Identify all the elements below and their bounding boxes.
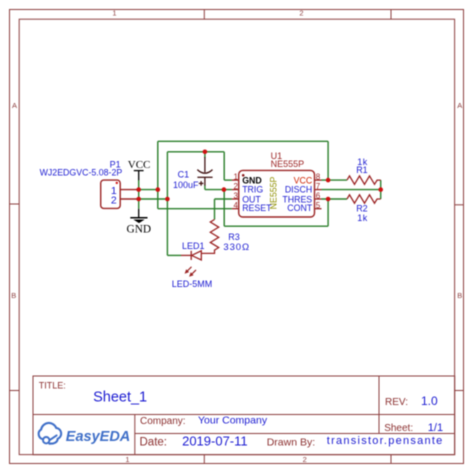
- svg-text:1k: 1k: [357, 213, 368, 223]
- svg-text:5: 5: [316, 201, 321, 210]
- svg-text:Drawn By:: Drawn By:: [267, 436, 315, 448]
- svg-text:Company:: Company:: [140, 416, 186, 427]
- svg-text:2: 2: [299, 8, 303, 17]
- svg-text:GND: GND: [127, 223, 151, 235]
- svg-text:WJ2EDGVC-5.08-2P: WJ2EDGVC-5.08-2P: [40, 167, 123, 177]
- svg-text:100uF: 100uF: [173, 180, 199, 190]
- svg-text:4: 4: [234, 201, 239, 210]
- svg-text:Sheet_1: Sheet_1: [93, 390, 147, 406]
- svg-text:Date:: Date:: [140, 436, 168, 448]
- svg-text:B: B: [11, 291, 16, 300]
- svg-text:DISCH: DISCH: [285, 185, 312, 195]
- svg-text:2: 2: [111, 195, 117, 207]
- svg-text:B: B: [457, 291, 462, 300]
- svg-text:Your Company: Your Company: [198, 415, 268, 427]
- svg-text:LED-5MM: LED-5MM: [172, 279, 213, 289]
- svg-text:EasyEDA: EasyEDA: [66, 429, 130, 445]
- svg-text:1/1: 1/1: [428, 422, 443, 434]
- svg-text:7: 7: [316, 182, 321, 191]
- svg-text:1.0: 1.0: [421, 394, 438, 408]
- svg-text:C1: C1: [178, 170, 190, 180]
- svg-text:transistor.pensante: transistor.pensante: [327, 435, 444, 447]
- svg-text:2019-07-11: 2019-07-11: [182, 433, 248, 448]
- svg-text:2: 2: [303, 455, 307, 464]
- svg-text:NE555P: NE555P: [268, 176, 278, 209]
- svg-text:3: 3: [234, 191, 239, 200]
- svg-text:8: 8: [316, 172, 321, 181]
- svg-text:VCC: VCC: [128, 159, 151, 171]
- svg-text:CONT: CONT: [287, 203, 313, 213]
- svg-text:Sheet:: Sheet:: [384, 423, 413, 434]
- svg-text:330Ω: 330Ω: [223, 242, 250, 253]
- svg-text:1: 1: [125, 455, 129, 464]
- svg-text:TITLE:: TITLE:: [39, 380, 66, 390]
- svg-text:TRIG: TRIG: [242, 185, 263, 195]
- svg-text:R3: R3: [228, 232, 240, 242]
- svg-text:1: 1: [234, 172, 239, 181]
- svg-text:1: 1: [112, 8, 116, 17]
- svg-text:2: 2: [234, 182, 239, 191]
- svg-text:REV:: REV:: [385, 397, 408, 408]
- svg-text:R1: R1: [356, 165, 368, 175]
- svg-text:NE555P: NE555P: [271, 159, 305, 169]
- svg-text:LED1: LED1: [182, 241, 205, 251]
- svg-text:A: A: [457, 101, 462, 110]
- svg-text:A: A: [12, 101, 17, 110]
- svg-text:6: 6: [316, 191, 321, 200]
